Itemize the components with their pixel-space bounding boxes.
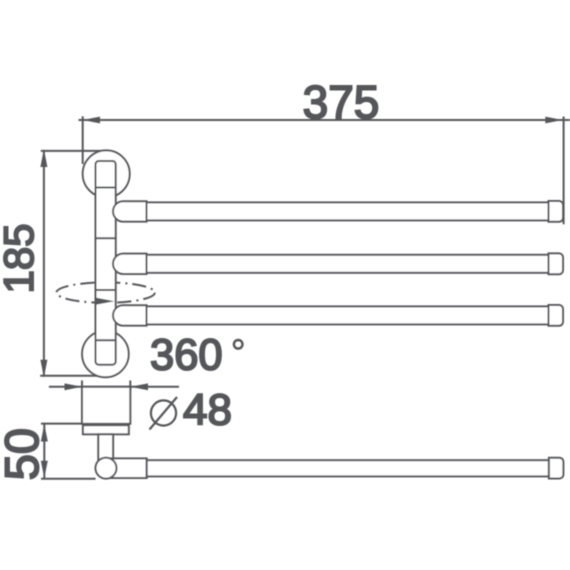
post joint line 3	[96, 289, 116, 291]
side view mount flange	[83, 425, 129, 434]
svg-text:48: 48	[183, 386, 232, 435]
rotation ellipse (dash-dot, 360 deg swivel)	[56, 282, 154, 302]
mount circle bottom	[82, 331, 129, 378]
extension line bottom of 185	[40, 375, 102, 377]
arm 3 end cap	[549, 305, 564, 326]
extension tick left of d48	[81, 381, 83, 392]
arrow right of 375	[545, 117, 562, 124]
arm 3 bar	[147, 306, 549, 324]
extension line left of 375	[82, 116, 84, 164]
arrow top of 185	[40, 149, 47, 167]
side view mount body	[82, 387, 130, 424]
side view pivot circle	[96, 458, 117, 479]
extension line bottom of 50	[41, 478, 96, 480]
post body	[96, 161, 116, 365]
degree symbol	[234, 340, 243, 349]
extension line top of 50	[41, 423, 82, 425]
side view bar	[147, 460, 549, 476]
post joint line 2	[96, 237, 116, 239]
arrow left of d48 (pointing right)	[65, 383, 83, 390]
arrow bottom of 50	[41, 461, 48, 478]
side view stem	[98, 434, 113, 460]
extension line right of 375	[563, 117, 565, 225]
mount circle top	[83, 150, 130, 197]
side view hub	[105, 458, 147, 478]
arm 1 hub	[113, 201, 147, 221]
post joint line 1	[96, 187, 116, 189]
arrow top of 50	[41, 424, 48, 441]
arrow bottom of 185	[40, 360, 47, 378]
svg-text:360: 360	[150, 332, 223, 380]
dimension 185 line	[43, 151, 45, 376]
arm 1 end cap	[549, 201, 564, 222]
wall post (vertical bar of front view)	[82, 150, 130, 377]
extension line top of 185	[41, 150, 105, 152]
svg-text:185: 185	[0, 223, 42, 293]
dimension 50 line	[43, 424, 45, 479]
svg-text:375: 375	[303, 76, 380, 128]
arm 1 bar	[147, 202, 549, 220]
arrow left of 375	[83, 117, 100, 124]
post joint line 4	[96, 339, 116, 341]
rotation arrow on ellipse	[96, 298, 114, 305]
arm 2 end cap	[549, 253, 564, 274]
arm 2 hub	[113, 254, 147, 274]
arm 2 bar	[147, 255, 549, 273]
dimension 375 line	[79, 119, 570, 121]
arrow right of d48 (pointing left)	[130, 383, 148, 390]
side view end cap	[549, 458, 564, 479]
dimension diameter 48 line	[49, 386, 179, 388]
arm 3 hub	[113, 305, 147, 325]
diameter symbol	[151, 400, 176, 425]
extension tick right of d48	[129, 381, 131, 392]
svg-text:50: 50	[0, 428, 48, 480]
